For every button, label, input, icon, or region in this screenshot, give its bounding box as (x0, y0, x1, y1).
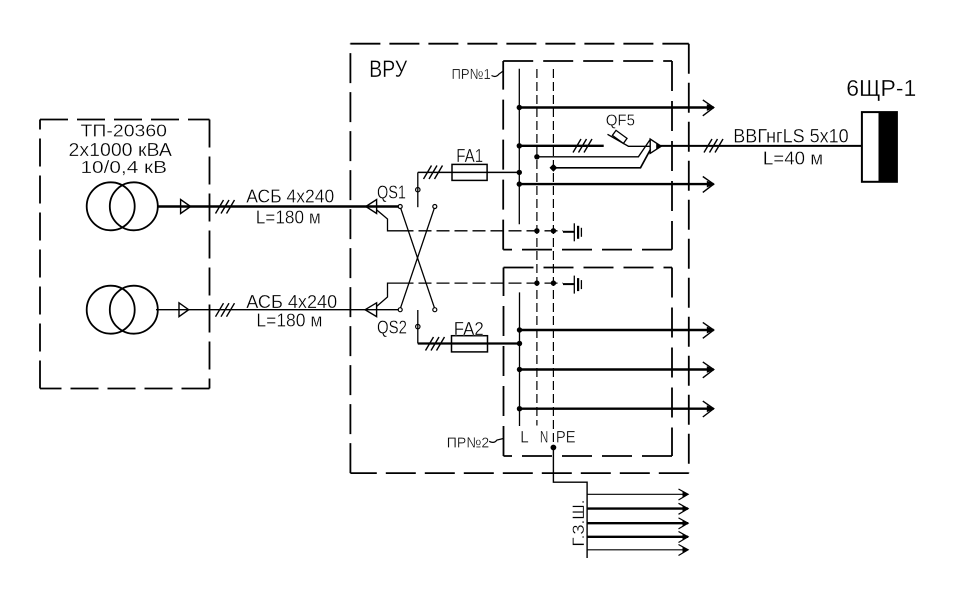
contact circles of QS1 (398, 188, 437, 209)
junction PE bus bottom node (551, 445, 557, 451)
earth link 2 (dashed wire) (401, 282, 564, 284)
cable marks on FA1 run (424, 166, 443, 180)
switch QS2 stem wire to FA2 (417, 310, 419, 344)
svg-text:N: N (540, 428, 549, 447)
earthing branch wire 2 (thick arrow) (587, 507, 688, 509)
circuit breaker QF5 body (rotated rect) (612, 130, 627, 143)
wire: FA1 fuse run from QS1 to L bus (418, 171, 520, 173)
svg-text:6ЩР-1: 6ЩР-1 (846, 75, 916, 101)
junction feeder2/L bus PR No.2 (517, 367, 522, 372)
junction on N bus / earth link 2 (534, 280, 539, 285)
feeder 3 of PR No.1 (wire with arrow) (519, 183, 713, 185)
junction on PE bus / earth link 1 (551, 228, 556, 233)
svg-text:ПР№1: ПР№1 (452, 66, 491, 83)
svg-text:L=180 м: L=180 м (256, 207, 321, 227)
svg-text:Г.З.Ш.: Г.З.Ш. (570, 500, 588, 547)
panel ShchR-1 symbol (862, 112, 897, 182)
svg-text:FA1: FA1 (456, 146, 483, 166)
svg-text:10/0,4 кВ: 10/0,4 кВ (81, 157, 168, 177)
feeder 1 of PR No.1 (wire with arrow) (519, 106, 713, 108)
cable marks on cable 1 (216, 200, 235, 214)
svg-text:PE: PE (556, 428, 576, 447)
svg-text:ТП-20360: ТП-20360 (81, 121, 168, 141)
earth link 1 (dashed wire) (401, 230, 564, 232)
wire: PEN tap from cable 1 down to earth link 1 (377, 210, 401, 231)
svg-text:L: L (520, 428, 529, 447)
earthing branch wire 3 (thick arrow) (587, 522, 688, 524)
svg-text:L=180 м: L=180 м (256, 311, 322, 331)
transformer T2 (87, 286, 158, 334)
leader from PR No.1 label to box (492, 71, 504, 76)
svg-text:АСБ 4х240: АСБ 4х240 (246, 185, 334, 206)
junction FA2/L bus PR No.2 (517, 341, 522, 346)
junction feeder3/L bus PR No.2 (517, 406, 522, 411)
wire: PEN tap from cable 2 up to earth link 2 (377, 283, 401, 306)
connector arrow at QS2 input (points left) (365, 303, 377, 317)
junction N bus tap for panel cable (534, 154, 539, 159)
transformer substation box TP-20360 (dashed enclosure) (40, 120, 210, 389)
circuit breaker QF5 blade (608, 134, 650, 146)
N bus (dashed vertical) (536, 69, 538, 426)
svg-text:FA2: FA2 (454, 319, 484, 339)
svg-text:АСБ 4х240: АСБ 4х240 (246, 291, 337, 312)
svg-text:ВРУ: ВРУ (369, 56, 408, 83)
svg-text:QS1: QS1 (377, 182, 406, 202)
junction FA1/L bus (517, 170, 522, 175)
transformer T1 (87, 182, 158, 230)
svg-text:QF5: QF5 (606, 113, 635, 130)
contact circles of QS2 (398, 308, 437, 329)
feeder 1 of PR No.2 (wire with arrow) (520, 329, 714, 331)
leader from PR No.2 label to box (489, 439, 503, 443)
svg-text:ВВГнгLS 5х10: ВВГнгLS 5х10 (733, 127, 848, 148)
junction PE bus tap for panel cable (diamond) (550, 164, 558, 172)
L bus of PR No.2 (519, 292, 521, 426)
earthing branch wire 5 (thin arrow) (587, 549, 688, 551)
junction QF5 feeder/L bus (517, 143, 522, 148)
earthing branch wire 1 (thin arrow) (587, 493, 688, 495)
panel PR No.1 box (dashed) (503, 61, 672, 250)
wire: cable 2 from T2 to QS2 left contact (156, 309, 399, 311)
junction feeder1/L bus PR No.2 (517, 327, 522, 332)
wire: PE conductor to panel cable (553, 149, 650, 167)
wire: PE riser to main earthing busbar (553, 448, 587, 559)
fuse FA1 (452, 164, 487, 180)
wire: cable 1 from T1 to QS1 left contact (158, 205, 399, 207)
fuse FA2 (452, 336, 488, 352)
connector arrow at T1 output (points right) (181, 200, 191, 214)
cable marks on panel cable (704, 139, 723, 153)
cable marks on FA2 run (426, 337, 445, 351)
PE bus (dashed vertical) (552, 69, 554, 448)
svg-text:L=40 м: L=40 м (763, 149, 823, 169)
svg-text:QS2: QS2 (377, 318, 407, 338)
switch blade QS2 (cross blade B) (401, 209, 435, 308)
feeder 3 of PR No.2 (wire with arrow) (520, 408, 714, 410)
wire: panel cable from QF5 to ShchR-1 (660, 145, 862, 147)
panel PR No.2 box (dashed) (504, 268, 673, 457)
earth symbol 2 (563, 276, 581, 294)
wire: N conductor to panel cable (537, 140, 650, 157)
svg-text:ПР№2: ПР№2 (447, 435, 490, 452)
cable marks on cable 2 (216, 303, 235, 317)
junction on PE bus / earth link 2 (551, 280, 556, 285)
L bus of PR No.1 (518, 69, 520, 225)
connector arrow at T2 output (points right) (179, 303, 189, 317)
cable marks on QF5 feeder (573, 139, 592, 153)
switch blade QS1 (cross blade A) (401, 209, 435, 308)
junction feeder3/L bus (517, 181, 522, 186)
connector arrow at QS1 input (points left) (366, 200, 377, 214)
switch QS1 stem wire to FA1 (417, 172, 419, 207)
earthing branch wire 4 (thick arrow) (587, 536, 688, 538)
connector arrow at QF5 output (points right) (650, 139, 661, 153)
junction feeder1/L bus (517, 105, 522, 110)
feeder 2 of PR No.2 (wire with arrow) (520, 368, 714, 370)
junction on N bus / earth link 1 (534, 228, 539, 233)
wire: FA2 fuse run from QS2 to L bus (418, 342, 520, 344)
wire: QF5 feeder from L bus (519, 145, 603, 147)
VRU cabinet (dashed enclosure) (350, 44, 688, 473)
earth symbol 1 (563, 223, 581, 241)
